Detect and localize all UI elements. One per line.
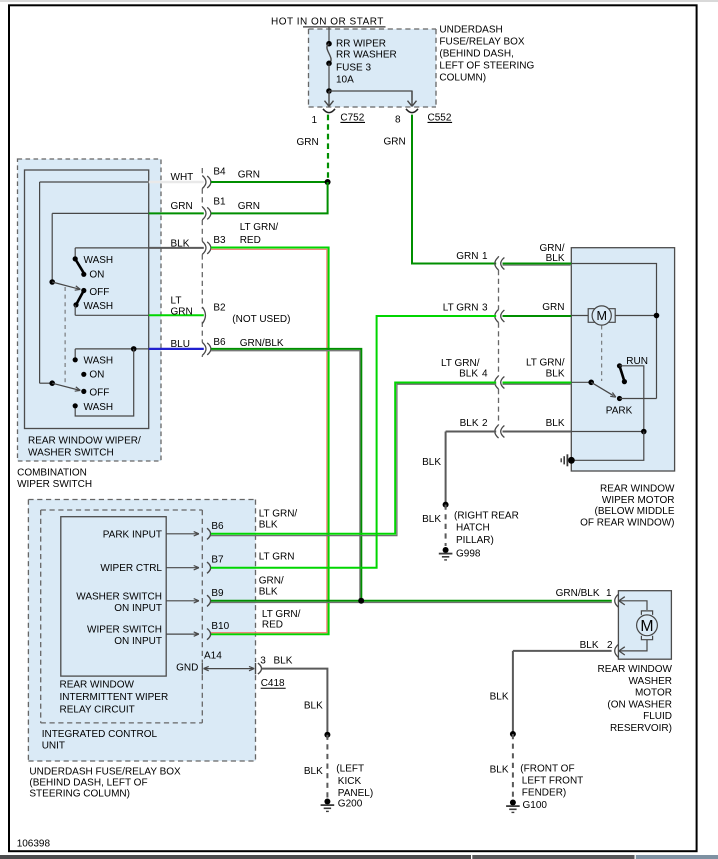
svg-text:2: 2 (482, 418, 488, 429)
label GRN (C752 wire) (297, 137, 319, 148)
label BLK (at G200) (304, 766, 323, 777)
park switch PARK contact (606, 396, 633, 417)
label G998 (456, 548, 481, 559)
wire to lower switch top WASH (74, 349, 76, 359)
node BLK G998 junction (443, 502, 449, 508)
ground G100 (506, 800, 520, 813)
svg-text:WASH: WASH (84, 402, 114, 413)
svg-text:RR WIPER: RR WIPER (336, 39, 386, 50)
svg-text:WASH: WASH (84, 255, 114, 266)
switch mechanical link (dashed) (64, 287, 66, 385)
switch washer lower WASH contact (73, 402, 114, 413)
label LT GRN right B7 (259, 552, 295, 563)
wire switch internal BLK out (75, 248, 149, 258)
pin 8 label (395, 115, 401, 126)
label REAR WINDOW WASHER MOTOR (ON WASHER FLUID RESERVOIR) (598, 664, 673, 734)
label LT GRN/BLK 4 (441, 358, 488, 380)
svg-text:UNIT: UNIT (42, 741, 65, 752)
svg-text:WIPER SWITCH: WIPER SWITCH (17, 479, 92, 490)
svg-text:BLK: BLK (546, 369, 565, 380)
connector pin 4 symbol (495, 376, 505, 389)
label B6 (211, 521, 224, 532)
label BLK 2 (460, 418, 488, 429)
switch washer OFF contact (81, 388, 109, 399)
wire pin4 to park common (571, 381, 590, 383)
svg-text:BLK: BLK (490, 692, 509, 703)
svg-text:BLK: BLK (546, 418, 565, 429)
wire PARK contact to riser (620, 398, 657, 400)
label B9 (211, 588, 224, 599)
svg-text:1: 1 (482, 251, 488, 262)
svg-text:FUSE 3: FUSE 3 (336, 63, 371, 74)
svg-text:(FRONT OF: (FRONT OF (520, 764, 574, 775)
label REAR WINDOW WIPER/ WASHER SWITCH (28, 436, 141, 459)
svg-text:UNDERDASH FUSE/RELAY BOX: UNDERDASH FUSE/RELAY BOX (29, 766, 181, 777)
connector B4 symbol (202, 176, 211, 189)
svg-text:LEFT OF STEERING: LEFT OF STEERING (439, 61, 534, 72)
wire RUN contact to BLK junction (620, 366, 644, 431)
wire BLK dashed to G998 (445, 505, 447, 546)
connector line (wiper motor side) (498, 256, 500, 438)
wire GRN switch to B1 (149, 212, 204, 214)
svg-text:GRN: GRN (171, 306, 193, 317)
svg-text:GND: GND (176, 663, 198, 674)
svg-text:(NOT USED): (NOT USED) (232, 314, 290, 325)
label UNDERDASH FUSE/RELAY BOX (BEHIND DASH, LEFT OF STEERING COLUMN) (29, 766, 181, 799)
svg-text:B2: B2 (213, 303, 226, 314)
svg-text:WHT: WHT (171, 172, 194, 183)
label WIPER SWITCH ON INPUT (87, 625, 162, 648)
label BLK right pin2 (546, 418, 565, 429)
ground G998 (439, 547, 453, 560)
svg-text:(LEFT: (LEFT (336, 764, 364, 775)
switch washer WASH contact (73, 356, 114, 367)
label B1 (213, 196, 226, 207)
svg-text:KICK: KICK (338, 776, 362, 787)
svg-text:G100: G100 (523, 800, 548, 811)
label B7 (211, 555, 224, 566)
svg-text:M: M (596, 309, 607, 323)
arrow into C752 (325, 91, 334, 106)
svg-text:RUN: RUN (626, 356, 648, 367)
connector B1 symbol (202, 207, 211, 220)
svg-text:LT GRN/: LT GRN/ (441, 358, 480, 369)
park switch arm arrow to PARK (591, 382, 616, 397)
svg-text:WASHER SWITCH: WASHER SWITCH (76, 591, 162, 602)
svg-text:HATCH: HATCH (456, 523, 490, 534)
label G100 (523, 800, 548, 811)
switch wiper upper common pole (49, 279, 55, 285)
wire fuse output (328, 63, 330, 91)
rear window washer motor (box) (618, 591, 671, 660)
connector pin 2 symbol (495, 425, 505, 438)
svg-text:BLK: BLK (274, 656, 293, 667)
label B6 (213, 337, 226, 348)
pin 1 label (311, 115, 317, 126)
svg-text:(RIGHT REAR: (RIGHT REAR (454, 510, 519, 521)
svg-text:REAR WINDOW: REAR WINDOW (600, 484, 675, 495)
arrow into C552 (408, 91, 417, 106)
connector B7 symbol (207, 562, 211, 573)
svg-text:BLK: BLK (546, 253, 565, 264)
svg-text:FUSE/RELAY BOX: FUSE/RELAY BOX (439, 37, 525, 48)
switch wiper upper blade OFF-WASH (76, 291, 84, 305)
motor M2 washer motor (637, 611, 658, 640)
svg-text:3: 3 (260, 656, 266, 667)
label LT GRN 3 (443, 303, 488, 314)
wire BLK down to G998 (445, 432, 447, 505)
svg-text:STEERING COLUMN): STEERING COLUMN) (29, 789, 130, 800)
svg-text:BLK: BLK (259, 586, 278, 597)
svg-text:REAR WINDOW WIPER/: REAR WINDOW WIPER/ (28, 436, 141, 447)
label BLK (at G100) (490, 765, 509, 776)
label (NOT USED) B2 (232, 314, 290, 325)
svg-text:WASHER: WASHER (628, 676, 672, 687)
svg-text:LT: LT (171, 295, 182, 306)
label BLK (above G100 junction) (490, 692, 509, 703)
wire GND double arrow to C418 (204, 666, 255, 670)
svg-text:GRN: GRN (456, 251, 478, 262)
svg-text:WASH: WASH (84, 301, 114, 312)
label WHT (171, 172, 194, 183)
svg-text:FENDER): FENDER) (522, 788, 566, 799)
wire GRN from C552 to wiper motor pin 1 (412, 115, 496, 264)
wiper motor case ground (561, 454, 575, 466)
pin A14 tick (201, 663, 203, 675)
label PARK INPUT (103, 529, 162, 540)
connector pin 1 symbol (495, 257, 505, 270)
svg-text:PARK INPUT: PARK INPUT (103, 529, 162, 540)
svg-text:GRN/BLK: GRN/BLK (240, 338, 284, 349)
node GRN/BLK junction (358, 598, 364, 604)
wire lower WASH loop (75, 349, 134, 416)
wire BLK switch to B3 (149, 247, 204, 249)
svg-text:G998: G998 (456, 548, 481, 559)
wire BLK from C418 down (262, 669, 328, 735)
connector B6 symbol (202, 342, 211, 355)
label REAR WINDOW WIPER MOTOR (BELOW MIDDLE OF REAR WINDOW) (580, 484, 675, 529)
svg-text:GRN: GRN (384, 137, 406, 148)
svg-text:BLK: BLK (259, 519, 278, 530)
wire GRN/BLK B6 to B9 junction (211, 349, 361, 600)
svg-text:LT GRN: LT GRN (259, 552, 295, 563)
svg-text:B9: B9 (211, 588, 224, 599)
motor M1 wiper motor armature (588, 306, 615, 325)
svg-text:GRN/: GRN/ (259, 576, 284, 587)
label WIPER CTRL (100, 563, 162, 574)
wire LT GRN B7 to wiper motor pin3 (211, 316, 496, 568)
connector washer pin 2 symbol (615, 644, 625, 657)
svg-text:M: M (640, 618, 653, 635)
connector pin 3 symbol (495, 310, 505, 323)
svg-text:3: 3 (482, 303, 488, 314)
svg-text:LT GRN/: LT GRN/ (262, 609, 301, 620)
switch washer ON contact (81, 370, 104, 381)
connector C418 pin 3 symbol (256, 663, 262, 674)
svg-text:GRN: GRN (171, 201, 193, 212)
label GRN right pin3 (542, 302, 564, 313)
connector B6 symbol (207, 528, 211, 539)
svg-text:INTERMITTENT WIPER: INTERMITTENT WIPER (60, 692, 169, 703)
label BLK (above G998 junction) (422, 457, 441, 468)
label BLK (above G200 junction) (304, 700, 323, 711)
connector C552 label (428, 113, 453, 124)
connector C418 label (261, 678, 286, 689)
node BLU junction (131, 346, 137, 352)
ground G200 (321, 799, 335, 812)
svg-text:BLK: BLK (304, 700, 323, 711)
svg-text:BLK: BLK (304, 766, 323, 777)
arrow B9 output (166, 599, 199, 603)
wire BLK dashed to G100 (512, 734, 514, 799)
svg-text:A14: A14 (204, 650, 222, 661)
wire to LT GRN output (75, 305, 149, 315)
arrow B7 output (166, 566, 199, 570)
svg-text:RELAY CIRCUIT: RELAY CIRCUIT (60, 705, 135, 716)
wire BLK pin2 into motor (503, 431, 572, 433)
wire GRN pin3 into motor (503, 315, 572, 317)
svg-text:BLK: BLK (171, 238, 190, 249)
label BLK (at G998) (422, 514, 441, 525)
svg-text:INTEGRATED CONTROL: INTEGRATED CONTROL (42, 729, 158, 740)
label GRN right B1 (238, 201, 260, 212)
wire BLK down to G100 (512, 651, 514, 734)
node motor/park junction (654, 313, 660, 319)
label LT GRN/RED right B3 (240, 222, 279, 246)
label (LEFT KICK PANEL) (336, 764, 373, 800)
svg-text:LT GRN/: LT GRN/ (259, 509, 298, 520)
svg-text:B1: B1 (213, 196, 226, 207)
svg-text:OFF: OFF (89, 388, 109, 399)
label GND (176, 663, 198, 674)
node BLK G200 junction (324, 732, 330, 738)
label A14 (204, 650, 222, 661)
wire GRN/BLK pin1 into motor (503, 264, 572, 266)
svg-text:RR WASHER: RR WASHER (336, 50, 397, 61)
svg-text:ON: ON (89, 370, 104, 381)
label REAR WINDOW INTERMITTENT WIPER RELAY CIRCUIT (60, 680, 169, 716)
label LT GRN/BLK right pin4 (526, 358, 565, 380)
svg-text:REAR WINDOW: REAR WINDOW (60, 680, 135, 691)
svg-text:8: 8 (395, 115, 401, 126)
motor-park mechanical link (dashed) (601, 326, 603, 382)
label (RIGHT REAR HATCH PILLAR) (454, 510, 519, 546)
svg-text:OFF: OFF (89, 287, 109, 298)
svg-text:PILLAR): PILLAR) (456, 535, 494, 546)
svg-text:(BELOW MIDDLE: (BELOW MIDDLE (594, 506, 674, 517)
svg-text:RED: RED (262, 620, 283, 631)
park switch RUN contact (617, 356, 648, 369)
label GRN/BLK right pin1 (540, 243, 565, 264)
svg-text:RED: RED (240, 235, 261, 246)
park switch common pole (588, 380, 594, 386)
svg-text:WIPER SWITCH: WIPER SWITCH (87, 625, 162, 636)
svg-text:WASHER SWITCH: WASHER SWITCH (28, 448, 114, 459)
label 3 BLK (260, 656, 292, 667)
wire GRN B1 to junction (211, 182, 328, 213)
connector B3 symbol (202, 241, 211, 254)
svg-text:LT GRN: LT GRN (443, 303, 479, 314)
wire to motor armature (571, 315, 588, 317)
label GRN/BLK right B6 (240, 338, 284, 349)
label GRN left B1 (171, 201, 193, 212)
label B4 (213, 167, 226, 178)
svg-text:GRN: GRN (238, 201, 260, 212)
svg-text:BLK: BLK (459, 369, 478, 380)
label UNDERDASH FUSE/RELAY BOX (BEHIND DASH, LEFT OF STEERING COLUMN) (439, 25, 534, 84)
svg-text:LEFT FRONT: LEFT FRONT (522, 776, 583, 787)
svg-text:BLU: BLU (171, 339, 190, 350)
label LT GRN/RED right B10 (262, 609, 301, 631)
wire switch internal WHT feed (40, 182, 149, 383)
svg-text:10A: 10A (336, 75, 354, 86)
svg-text:BLK: BLK (422, 514, 441, 525)
label LT GRN left B2 (171, 295, 193, 317)
wire hot feed into fuse box (328, 28, 330, 42)
svg-text:GRN: GRN (542, 302, 564, 313)
svg-text:GRN/BLK: GRN/BLK (556, 588, 600, 599)
svg-text:C418: C418 (261, 678, 285, 689)
wire switch internal GRN feed (52, 213, 149, 281)
svg-text:(BEHIND DASH,: (BEHIND DASH, (439, 49, 513, 60)
node BLK G100 junction (510, 731, 516, 737)
rear window wiper motor (box) (571, 248, 674, 471)
switch wiper upper blade WASH-ON (75, 259, 84, 273)
svg-text:OF REAR WINDOW): OF REAR WINDOW) (580, 517, 674, 528)
svg-text:G200: G200 (338, 798, 363, 809)
underdash fuse/relay box (dashed box) (28, 500, 255, 762)
node fuse output junction (326, 88, 332, 94)
svg-text:B7: B7 (211, 555, 224, 566)
wire GRN dashed from C752 (327, 115, 329, 182)
combination wiper switch (dashed box) (18, 159, 162, 461)
label HOT IN ON OR START (271, 17, 386, 28)
svg-text:(ON WASHER: (ON WASHER (607, 699, 672, 710)
svg-text:WASH: WASH (84, 356, 114, 367)
svg-text:LT GRN/: LT GRN/ (240, 222, 279, 233)
label GRN (C552 wire) (384, 137, 406, 148)
connector C752 label (340, 113, 365, 124)
arrow B6 output (166, 532, 199, 536)
svg-text:B4: B4 (213, 167, 226, 178)
label (FRONT OF LEFT FRONT FENDER) (520, 764, 583, 799)
connector B9 symbol (207, 595, 211, 606)
park switch blade at RUN (620, 366, 628, 384)
svg-text:BLK: BLK (490, 765, 509, 776)
switch washer arm arrow to OFF (52, 383, 80, 391)
wire BLU switch to B6 (149, 348, 204, 350)
arrow B10 output (166, 632, 199, 636)
label LT GRN/BLK right B6 (259, 509, 298, 531)
wire motor to junction (615, 315, 656, 317)
svg-text:LT GRN/: LT GRN/ (526, 358, 565, 369)
wire LT GRN/BLK B6 to wiper motor pin4 (211, 383, 496, 536)
svg-text:B6: B6 (213, 337, 226, 348)
label B3 (213, 235, 226, 246)
svg-text:B3: B3 (213, 235, 226, 246)
svg-text:BLK: BLK (422, 457, 441, 468)
svg-text:4: 4 (482, 369, 488, 380)
svg-text:ON INPUT: ON INPUT (114, 603, 162, 614)
wire switch internal BLU out (75, 348, 149, 350)
svg-text:BLK: BLK (580, 640, 599, 651)
switch wiper upper arm arrow to OFF (52, 282, 80, 290)
svg-text:B10: B10 (211, 621, 229, 632)
svg-text:(BEHIND DASH, LEFT OF: (BEHIND DASH, LEFT OF (29, 778, 147, 789)
switch wiper upper WASH contact (73, 255, 114, 266)
label BLK left B3 (171, 238, 190, 249)
svg-text:BLK: BLK (460, 418, 479, 429)
diagram id 106398 (17, 838, 51, 849)
underdash fuse/relay box (top) (309, 29, 437, 107)
svg-text:WIPER CTRL: WIPER CTRL (100, 563, 162, 574)
label GRN/BLK right B9 (259, 576, 284, 598)
wire branch to C552 (329, 91, 412, 100)
svg-text:PARK: PARK (606, 406, 633, 417)
label GRN 1 (456, 251, 488, 262)
svg-text:REAR WINDOW: REAR WINDOW (598, 664, 673, 675)
wire GRN B4 to junction (211, 181, 328, 183)
svg-text:UNDERDASH: UNDERDASH (439, 25, 502, 36)
label BLU left B6 (171, 339, 190, 350)
wire washer internal pin1 (620, 601, 647, 610)
switch wiper upper OFF contact (81, 287, 109, 298)
wire WHT switch to B4 (149, 181, 204, 183)
wire washer internal pin2 (620, 640, 647, 651)
switch washer common pole (49, 380, 55, 386)
connector B10 symbol (207, 629, 211, 640)
label BLK 2 (580, 640, 613, 651)
connector C752 pin 1 symbol (323, 109, 335, 113)
wire LT GRN/RED B3 to B10 (211, 248, 329, 635)
svg-text:GRN: GRN (238, 170, 260, 181)
svg-text:ON: ON (89, 269, 104, 280)
label INTEGRATED CONTROL UNIT (42, 729, 158, 752)
wire LT GRN switch to B2 (149, 314, 204, 316)
connector line (switch side) (201, 168, 203, 357)
switch wiper upper ON contact (81, 269, 104, 280)
wire BLK junction down to case ground (572, 432, 644, 461)
svg-text:COLUMN): COLUMN) (439, 73, 486, 84)
svg-text:2: 2 (607, 640, 613, 651)
wire GRN/BLK B9 to washer motor pin1 (211, 601, 612, 603)
switch wiper upper lower WASH contact (73, 301, 113, 312)
wire LT GRN/BLK pin4 into motor (503, 383, 572, 385)
svg-text:1: 1 (311, 115, 317, 126)
connector C552 pin 8 symbol (406, 109, 418, 113)
svg-text:HOT IN ON OR START: HOT IN ON OR START (271, 17, 384, 28)
label COMBINATION WIPER SWITCH (17, 468, 92, 491)
svg-text:WIPER MOTOR: WIPER MOTOR (602, 495, 675, 506)
label B10 (211, 621, 229, 632)
wire motor internal pin1 to park riser (571, 264, 656, 399)
svg-text:ON INPUT: ON INPUT (114, 636, 162, 647)
svg-text:106398: 106398 (17, 838, 51, 849)
label GRN right B4 (238, 170, 260, 181)
svg-text:RESERVOIR): RESERVOIR) (610, 723, 672, 734)
svg-text:MOTOR: MOTOR (635, 688, 672, 699)
node BLK internal junction (641, 429, 647, 435)
svg-text:FLUID: FLUID (643, 711, 672, 722)
label B2 (213, 303, 226, 314)
svg-text:B6: B6 (211, 521, 224, 532)
wire BLK washer pin2 to drop (513, 650, 612, 652)
label G200 (338, 798, 363, 809)
integrated control unit (dashed box) (41, 510, 203, 723)
connector B2 symbol (202, 307, 205, 324)
wire motor internal BLK (571, 431, 644, 433)
svg-text:GRN: GRN (297, 137, 319, 148)
